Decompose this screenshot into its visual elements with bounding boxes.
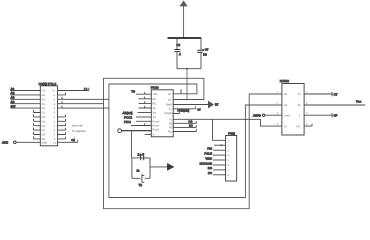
svg-text:MCLR+/R: MCLR+/R [200, 161, 212, 165]
U2 right r4 stub [304, 124, 312, 126]
svg-text:X: X [153, 133, 155, 136]
note interrupt text [72, 124, 86, 140]
node AB bus label l6 [123, 111, 152, 115]
node ASPD terminal [253, 113, 282, 117]
svg-text:L2: L2 [84, 87, 88, 91]
svg-text:Y2: Y2 [139, 183, 143, 187]
svg-text:RxcA: RxcA [153, 120, 160, 123]
connector J1 box [40, 86, 57, 146]
svg-text:PG: PG [189, 121, 193, 124]
U1 inside pin names [153, 93, 175, 137]
junction cap rail [186, 68, 188, 70]
svg-text:O4: O4 [42, 125, 46, 128]
U1 right pin r9 SC [173, 125, 196, 128]
svg-text:PG: PG [297, 125, 301, 128]
PGM pin5 wire VIDD [205, 156, 225, 160]
IC U2 MAX box [282, 84, 304, 136]
U1 right pin r8 PG [173, 121, 196, 124]
node PDB bus label r5 [173, 106, 201, 112]
svg-text:Ta: Ta [298, 104, 301, 107]
svg-text:A1: A1 [284, 93, 288, 96]
svg-text:1: 1 [74, 135, 76, 139]
U1 left pin l10 OSC terminal [118, 129, 152, 133]
svg-text:PIC16: PIC16 [151, 86, 159, 90]
svg-text:PIC4: PIC4 [124, 120, 131, 124]
svg-text:O4: O4 [42, 94, 46, 97]
svg-text:SP: SP [334, 114, 338, 118]
wire OSC branch down to crystal [130, 131, 132, 158]
svg-text:C6: C6 [176, 43, 180, 47]
J1 right r1 wire L2 flag [58, 87, 89, 91]
node Y0 label U1 pin l1 [131, 90, 151, 95]
svg-text:H8: H8 [203, 52, 207, 56]
connector PGM box [226, 136, 237, 182]
wire crystal right [149, 158, 151, 178]
U1 left pin l3 stub [139, 101, 152, 103]
svg-text:O4: O4 [42, 98, 46, 101]
svg-text:21: 21 [137, 169, 140, 172]
svg-text:B7: B7 [198, 109, 202, 112]
wire VDD drop to U1 pin [186, 69, 188, 100]
svg-text:a1: a1 [168, 99, 171, 102]
svg-text:GND: GND [42, 142, 48, 145]
svg-text:TxD: TxD [153, 93, 158, 96]
wire J1 GND right with C2 label [58, 140, 78, 142]
PGM pin2 wire tick [214, 144, 226, 146]
wire crystal bottom [132, 177, 150, 179]
svg-text:SC: SC [189, 125, 193, 128]
svg-text:PGLN: PGLN [204, 151, 212, 155]
svg-text:O1: O1 [42, 103, 46, 106]
U2 inside labels [284, 93, 301, 128]
svg-text:O8: O8 [42, 134, 46, 137]
wire r4 arrow PDB [173, 101, 219, 108]
svg-text:Freqbal: Freqbal [165, 112, 175, 115]
U1 left pin l9 stub [131, 123, 151, 125]
U2 right r2 wire Vcc [304, 100, 365, 105]
node SW wire label [11, 104, 41, 108]
node ADB terminal [2, 141, 40, 145]
svg-text:Xw: Xw [153, 112, 157, 115]
svg-text:A1: A1 [284, 104, 288, 107]
svg-text:PDI: PDI [207, 147, 212, 151]
svg-text:B7: B7 [215, 103, 219, 107]
svg-text:O1: O1 [42, 90, 46, 93]
svg-text:Tw: Tw [153, 116, 156, 119]
svg-text:MAX12: MAX12 [280, 79, 290, 83]
svg-text:ASPD: ASPD [253, 113, 261, 117]
wire conn r3 to inner loop [58, 97, 109, 100]
svg-text:Tr: Tr [169, 108, 172, 111]
arrow crystal out [150, 166, 168, 168]
node PIC4 label l8 [124, 120, 151, 124]
svg-text:Y0: Y0 [131, 90, 135, 94]
wire conn to U1 l2 [139, 97, 152, 99]
node AB0 wire label [11, 100, 41, 104]
U1 right pin r1 tick [180, 89, 182, 94]
J1 inside labels [42, 90, 57, 145]
capacitor C7 polarized [197, 38, 209, 69]
svg-text:VIDD: VIDD [205, 156, 212, 160]
crystal circuit [132, 152, 174, 187]
svg-text:Cmd: Cmd [284, 114, 290, 117]
wire branch down to PGM pin1 [213, 119, 226, 140]
J1 left hook stubs [34, 110, 41, 113]
svg-text:ADB: ADB [2, 141, 8, 145]
wire inner loop U1 to U2 pin A2 [109, 84, 282, 198]
U2 pin numbers [277, 91, 309, 126]
wire conn r2 stub [58, 93, 66, 95]
svg-text:RT: RT [169, 126, 173, 129]
capacitor C6 [174, 38, 181, 69]
wire cap bottom rail [177, 68, 201, 70]
IC U1 PIC box [151, 90, 173, 137]
J1 right stubs [58, 115, 66, 117]
svg-text:Interrupt*: Interrupt* [72, 124, 84, 128]
U1 right pin r6 stub [173, 111, 179, 113]
crystal Y2 symbol [141, 174, 143, 182]
svg-text:R2: R2 [169, 122, 173, 125]
svg-text:RxcA: RxcA [153, 129, 160, 132]
wire outer loop U1 to U2 pin A1 [104, 78, 282, 208]
capacitor C ticks [141, 156, 144, 161]
svg-text:C7: C7 [205, 48, 209, 52]
PGM pin4 wire PGLN [204, 151, 225, 155]
wire U1 TX long to U2 pin4 [173, 119, 282, 126]
PGM pin3 wire PDI [207, 147, 225, 151]
wire conn r4 to outer loop [58, 101, 104, 103]
wire conn r5 to inner loop [58, 106, 109, 108]
svg-text:a0: a0 [168, 93, 171, 96]
svg-text:VCC: VCC [356, 100, 362, 104]
svg-text:Pt+RgGND: Pt+RgGND [72, 129, 86, 133]
svg-text:BW9: BW9 [166, 104, 172, 107]
svg-text:O4: O4 [42, 120, 46, 123]
svg-text:DC: DC [208, 171, 212, 175]
wire crystal left [131, 158, 133, 178]
svg-text:O4: O4 [42, 116, 46, 119]
U2 right r1 wire CT terminal [304, 92, 338, 97]
power VCC arrow [180, 1, 188, 38]
U2 right r3 wire SP terminal [304, 113, 337, 118]
svg-text:PGM: PGM [228, 132, 235, 136]
U1 left pin l4 stub [139, 106, 152, 108]
PGM pin8 wire DC [208, 171, 226, 175]
svg-text:O2: O2 [42, 112, 46, 115]
svg-text:Y: Y [299, 114, 301, 117]
svg-text:RC: RC [153, 102, 157, 105]
svg-text:CT: CT [334, 92, 338, 96]
wire crystal top [132, 157, 150, 159]
svg-text:RxcA: RxcA [153, 124, 160, 127]
svg-text:RC: RC [153, 98, 157, 101]
svg-text:Xp: Xp [153, 107, 157, 110]
svg-text:2 p 5: 2 p 5 [138, 152, 145, 156]
U1 right pin r10 stub [173, 129, 196, 131]
node POC1 label l7 [124, 116, 151, 120]
PGM pin6 wire MCLR [200, 161, 226, 165]
PGM pin7 wire RG [208, 166, 226, 170]
svg-text:RG: RG [208, 166, 212, 170]
svg-text:O8: O8 [42, 138, 46, 141]
node AB2 wire label [11, 91, 41, 95]
svg-text:AB[2:0]: AB[2:0] [123, 111, 133, 115]
svg-text:.1: .1 [179, 52, 182, 56]
svg-text:O4: O4 [42, 129, 46, 132]
svg-text:Rg: Rg [168, 131, 172, 134]
svg-text:O2: O2 [42, 107, 46, 110]
svg-text:CONN PT1.6: CONN PT1.6 [39, 82, 57, 86]
U1 left pin l10 stub [145, 134, 152, 136]
wire VCC bold rail [168, 37, 202, 39]
svg-text:Y1: Y1 [298, 93, 302, 96]
node A8 wire label [11, 87, 41, 91]
PGM pin numbers [228, 139, 230, 177]
node AB1 wire label [11, 96, 41, 100]
